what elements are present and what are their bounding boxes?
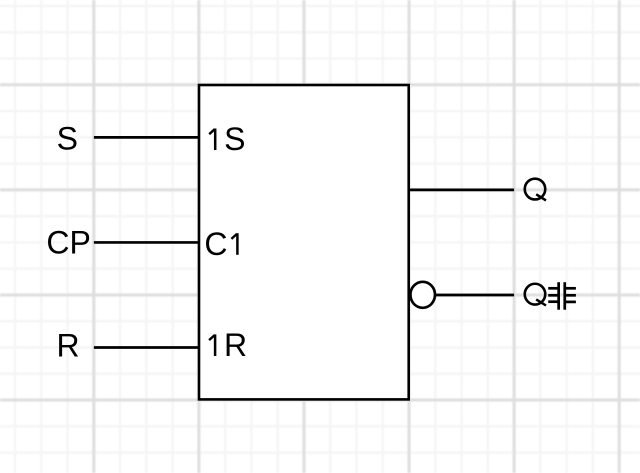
svg-text:S: S xyxy=(224,121,245,157)
wire CP input xyxy=(94,241,199,244)
pin label 1S: drawn digit 1 + S xyxy=(209,129,215,151)
wire R input xyxy=(94,346,199,349)
pin label 1R: drawn digit 1 + R xyxy=(209,334,215,356)
svg-text:C: C xyxy=(204,226,227,262)
flip-flop body U1 xyxy=(199,85,409,399)
svg-text:R: R xyxy=(57,327,80,363)
label Q-bar: hand-drawn CJK glyph 非 xyxy=(548,282,576,310)
label Q xyxy=(525,179,546,201)
svg-text:CP: CP xyxy=(46,225,90,261)
svg-text:R: R xyxy=(224,327,247,363)
wire Q output xyxy=(409,189,514,192)
wire S input xyxy=(94,136,199,139)
label Q-bar: Q part xyxy=(525,284,546,306)
wire Q-bar output xyxy=(435,294,514,297)
svg-text:S: S xyxy=(57,121,78,157)
inversion bubble on Q-bar output xyxy=(410,282,435,308)
